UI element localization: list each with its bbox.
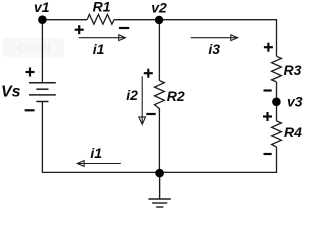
- svg-text:R3: R3: [284, 62, 302, 78]
- svg-text:i1: i1: [90, 145, 102, 161]
- svg-text:i3: i3: [208, 41, 220, 57]
- svg-text:i1: i1: [93, 41, 105, 57]
- svg-text:Ctrl+N: Ctrl+N: [18, 43, 51, 55]
- svg-text:i2: i2: [126, 87, 138, 103]
- svg-text:v2: v2: [151, 0, 167, 15]
- svg-text:v3: v3: [287, 93, 303, 109]
- svg-text:R2: R2: [167, 88, 185, 104]
- svg-text:R1: R1: [93, 0, 111, 15]
- svg-text:Vs: Vs: [1, 84, 21, 101]
- svg-text:R4: R4: [284, 124, 302, 140]
- svg-text:v1: v1: [34, 0, 50, 15]
